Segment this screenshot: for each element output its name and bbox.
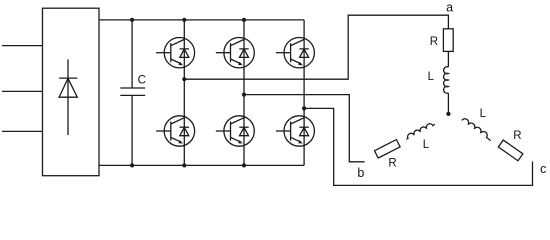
svg-text:L: L	[428, 71, 435, 83]
diode D1 (inside rectifier)	[59, 59, 77, 135]
node star point	[446, 112, 450, 116]
wire L to star point (phase a)	[447, 93, 449, 114]
transistor Q1	[156, 38, 194, 68]
wire inverter leg 2	[243, 20, 245, 166]
junction on positive bus 2	[182, 18, 186, 22]
junction on negative bus 2	[182, 163, 186, 167]
inductor L (phase b)	[406, 124, 435, 140]
capacitor C	[120, 20, 145, 166]
resistor R (phase c)	[498, 140, 523, 161]
wire R to L (phase a)	[447, 51, 449, 67]
resistor R (phase a)	[443, 29, 453, 52]
svg-text:b: b	[357, 166, 364, 180]
svg-text:L: L	[423, 139, 430, 151]
transistor Q6	[276, 116, 315, 146]
svg-text:C: C	[138, 74, 146, 86]
wire phase b output	[244, 95, 365, 162]
node phase c leg midpoint	[302, 106, 306, 110]
transistor Q5	[276, 38, 315, 68]
wire inverter leg 3	[303, 20, 305, 166]
junction on negative bus 3	[242, 163, 246, 167]
node phase b leg midpoint	[242, 93, 246, 97]
wire phase c output	[304, 108, 532, 185]
inductor L (phase a)	[444, 67, 449, 94]
svg-text:c: c	[540, 162, 546, 176]
wire DC bus positive	[99, 19, 304, 21]
svg-text:a: a	[446, 1, 453, 15]
wire DC bus negative	[99, 164, 304, 166]
transistor Q3	[216, 38, 255, 68]
rectifier block	[43, 8, 100, 176]
wire AC input phase 3	[2, 130, 43, 132]
wire inverter leg 1	[183, 20, 185, 166]
svg-text:R: R	[388, 157, 396, 169]
wire phase a output	[184, 15, 448, 79]
wire AC input phase 2	[2, 90, 43, 92]
junction on negative bus 1	[130, 163, 134, 167]
svg-text:L: L	[480, 108, 487, 120]
wire AC input phase 1	[2, 45, 43, 47]
junction on positive bus 1	[130, 18, 134, 22]
resistor R (phase b)	[374, 140, 400, 158]
transistor Q4	[216, 116, 255, 146]
svg-text:R: R	[430, 36, 438, 48]
inductor L (phase c)	[462, 119, 491, 141]
junction on positive bus 3	[242, 18, 246, 22]
svg-text:R: R	[513, 130, 521, 142]
transistor Q2	[156, 116, 194, 146]
node phase a leg midpoint	[182, 77, 186, 81]
